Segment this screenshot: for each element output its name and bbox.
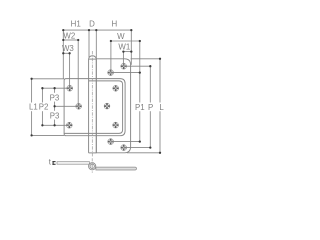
ext barrel left (88, 30, 90, 57)
svg-text:L: L (159, 103, 164, 112)
svg-text:P: P (148, 103, 153, 112)
P2 vertical (41, 88, 43, 102)
hole h4 back plate top-left (108, 70, 114, 76)
L vertical (159, 59, 161, 103)
svg-text:P1: P1 (135, 103, 145, 112)
svg-text:H1: H1 (71, 20, 81, 29)
hole h7 back plate bottom-right (121, 145, 127, 151)
front leaf outer outline (64, 79, 125, 136)
W dim (111, 40, 140, 42)
W1 dim (123, 51, 131, 53)
svg-text:W: W (117, 32, 125, 41)
pivot circle inner (90, 164, 94, 168)
barrel right edge (95, 59, 97, 153)
plate top ext to L (131, 58, 160, 60)
hole h5 back plate top-right (121, 63, 127, 69)
svg-text:W3: W3 (62, 44, 74, 53)
right leader h7 (124, 147, 151, 149)
L1 bottom ext (32, 134, 65, 136)
barrel top dome (89, 56, 97, 59)
right leader h4 (111, 72, 140, 74)
svg-text:W2: W2 (63, 32, 75, 41)
P1 vertical (139, 41, 141, 103)
screw holes (66, 63, 126, 150)
barrel bottom line (89, 152, 97, 154)
svg-text:D: D (89, 20, 95, 29)
L1 top ext (32, 78, 65, 80)
t dim marks (52, 161, 55, 165)
pin centerline (91, 51, 93, 157)
hole h10 front leaf bottom (113, 122, 119, 128)
svg-text:P2: P2 (39, 103, 49, 112)
hole h8 front leaf top (113, 85, 119, 91)
ext barrel right (95, 30, 97, 59)
right leader h6 (111, 141, 140, 143)
barrel left edge (88, 59, 90, 153)
right bar (96, 167, 137, 170)
plate bottom ext to L (127, 152, 160, 154)
W2 dim (63, 39, 78, 41)
top dim line H1 D H (63, 29, 131, 31)
left leader hole2 (55, 105, 79, 107)
right leader h5 (124, 65, 151, 67)
left bar (leaf thickness t) (57, 162, 90, 165)
bottom view (52, 158, 136, 173)
ext left edge (62, 30, 64, 79)
P3 vertical (54, 88, 56, 93)
svg-text:P3: P3 (50, 112, 60, 121)
hole h1 (67, 85, 73, 91)
svg-text:P3: P3 (50, 93, 60, 102)
W3 dim (63, 52, 69, 54)
svg-text:L1: L1 (29, 103, 38, 112)
left leader hole1 (42, 87, 69, 89)
dimension dots (30, 29, 161, 154)
ext plate right (130, 30, 132, 65)
L1 vertical (31, 79, 33, 103)
barrel base line (89, 58, 97, 60)
svg-text:W1: W1 (118, 43, 130, 52)
centerline through circle (91, 158, 93, 173)
svg-text:H: H (111, 20, 117, 29)
hole h2 (76, 103, 82, 109)
hole h6 back plate bottom-left (108, 139, 114, 145)
front leaf inner edge line (64, 81, 123, 133)
back leaf plate (96, 59, 130, 153)
dimension lines (32, 30, 160, 153)
pivot circle outer (89, 163, 96, 170)
hole h3 (66, 122, 72, 128)
hole h9 front leaf middle (104, 103, 110, 109)
P vertical (149, 66, 151, 102)
left leader hole3 (42, 124, 69, 126)
